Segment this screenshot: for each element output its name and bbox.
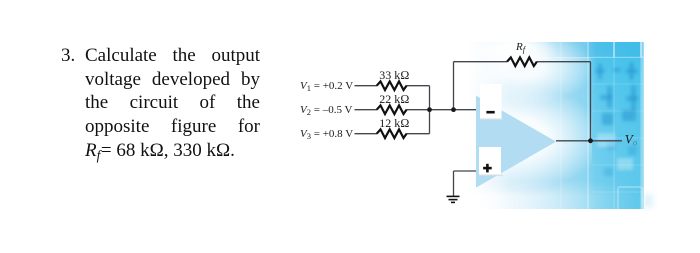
svg-text:V1 = +0.2 V: V1 = +0.2 V	[300, 80, 353, 93]
svg-text:Vo: Vo	[625, 132, 638, 148]
svg-text:12 kΩ: 12 kΩ	[379, 116, 409, 130]
svg-text:33 kΩ: 33 kΩ	[379, 68, 409, 82]
svg-text:Rf: Rf	[515, 41, 527, 54]
svg-text:V3 = +0.8 V: V3 = +0.8 V	[300, 128, 353, 141]
svg-text:V2 = –0.5 V: V2 = –0.5 V	[300, 104, 352, 117]
svg-text:22 kΩ: 22 kΩ	[379, 92, 409, 106]
